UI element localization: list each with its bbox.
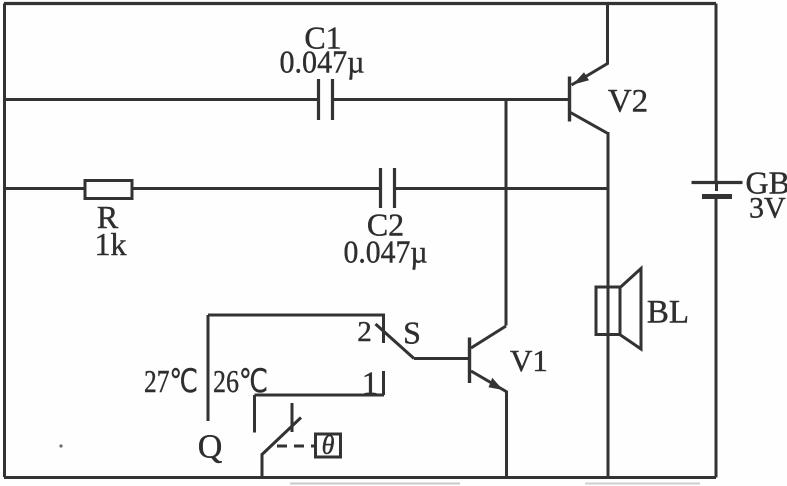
- resistor R: [85, 181, 132, 199]
- wire: right rail above battery: [715, 4, 718, 183]
- theta sensor box: [316, 431, 341, 460]
- label S: [403, 315, 421, 351]
- wire: second rail left of R: [4, 187, 85, 190]
- label C1: [304, 20, 341, 56]
- wire: lever pivot down to bottom rail: [261, 454, 264, 478]
- label GB: [746, 165, 787, 201]
- transistor V2: [570, 4, 608, 134]
- wire: top signal rail right of C1 to V2 base: [334, 98, 569, 101]
- wire: outer frame bottom rail: [4, 476, 716, 479]
- svg-text:0.047µ: 0.047µ: [280, 44, 365, 80]
- switch S upper rail to contact 2: [208, 314, 384, 317]
- wire: second rail from C2 to V2 collector line: [396, 187, 608, 190]
- label 26C: [213, 363, 268, 399]
- wire: outer frame top rail: [4, 2, 716, 5]
- wire: 26C contact vertical: [253, 395, 256, 433]
- pin label 1: [362, 366, 379, 402]
- label 3V: [749, 192, 786, 225]
- wire: top signal rail left of C1: [4, 98, 318, 101]
- svg-text:V2: V2: [608, 84, 648, 120]
- svg-text:1: 1: [362, 366, 379, 402]
- label R: [97, 199, 119, 235]
- switch S lower rail to contact 1: [255, 394, 385, 397]
- thermal switch Q contact tick: [291, 403, 294, 432]
- wire: outer frame left rail: [3, 4, 6, 478]
- svg-text:S: S: [403, 315, 421, 351]
- capacitor C1: [319, 79, 333, 120]
- svg-text:3V: 3V: [749, 192, 786, 225]
- label C2: [367, 207, 404, 243]
- transistor V1: [470, 326, 508, 392]
- pin label 2: [357, 316, 372, 348]
- label 27C: [144, 363, 198, 399]
- label V2: [608, 84, 648, 120]
- svg-text:0.047µ: 0.047µ: [344, 234, 428, 270]
- battery GB: [692, 183, 743, 197]
- wire: V1 emitter down to bottom rail: [505, 391, 508, 477]
- contact 2 tick: [382, 314, 385, 344]
- svg-text:27℃: 27℃: [144, 363, 198, 399]
- label Q: [198, 429, 223, 466]
- scan speck near Q: [59, 444, 62, 447]
- capacitor C2: [381, 168, 395, 208]
- label V1: [510, 343, 548, 378]
- scan smudge below bottom rail left: [290, 483, 460, 485]
- svg-text:Q: Q: [198, 429, 223, 466]
- label BL: [647, 295, 689, 331]
- thermal switch Q lever: [262, 418, 301, 455]
- wire: right rail below battery: [715, 197, 718, 478]
- label C2 value 0.047u: [344, 234, 428, 270]
- svg-text:θ: θ: [322, 431, 335, 460]
- wire: second rail between R and C2: [132, 187, 379, 190]
- label R value 1k: [95, 226, 127, 262]
- scan smudge below bottom rail right: [585, 483, 700, 485]
- svg-text:V1: V1: [510, 343, 548, 378]
- svg-text:BL: BL: [647, 295, 689, 331]
- wire: vertical from top rail down to V1 collector: [505, 100, 508, 326]
- wire: V1 base horizontal from switch S: [414, 357, 468, 360]
- label C1 value 0.047u: [280, 44, 365, 80]
- svg-text:1k: 1k: [95, 226, 127, 262]
- speaker BL: [596, 269, 641, 350]
- contact 1 tick: [382, 371, 385, 395]
- wire: V2 collector down through speaker to bottom rail: [607, 132, 610, 477]
- wire: 27C contact vertical: [207, 315, 210, 421]
- svg-text:2: 2: [357, 316, 372, 348]
- svg-text:26℃: 26℃: [213, 363, 268, 399]
- dashed actuation link to theta: [277, 445, 314, 448]
- switch S wiper: [376, 324, 415, 359]
